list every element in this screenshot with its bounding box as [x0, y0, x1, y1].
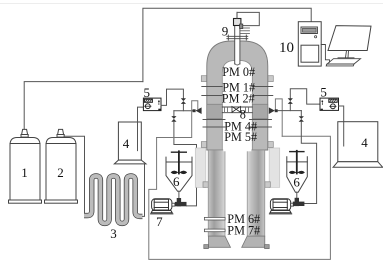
wire: valve 2R to pump tee right	[301, 122, 316, 204]
vessel 4 left (bubbler)	[114, 122, 146, 164]
wire: cylinder2 to heat exchanger inlet	[64, 136, 84, 215]
svg-text:3: 3	[110, 226, 117, 241]
valve 2 right (bowtie)	[299, 116, 304, 122]
heat exchanger 3 (serpentine cooler)	[84, 176, 143, 224]
wire: bridge over right port	[275, 99, 282, 136]
port boss right	[252, 104, 267, 118]
distributor plate 8	[222, 107, 252, 113]
valve 2 left (bowtie)	[171, 116, 176, 122]
furnace strip right	[269, 148, 280, 187]
top flange	[227, 35, 248, 40]
monitor stand	[338, 51, 354, 58]
svg-text:9: 9	[222, 24, 229, 39]
foot right	[242, 236, 265, 247]
elbow fitting right	[293, 198, 305, 206]
monitor	[328, 26, 371, 51]
svg-text:4: 4	[361, 135, 368, 150]
reactor neck tube	[235, 26, 240, 66]
wire: cylinder1 stem to junction	[24, 82, 143, 129]
port fitting cone left	[193, 107, 202, 114]
thermocouple ticks at neck	[240, 28, 250, 34]
svg-text:PM 5#: PM 5#	[224, 130, 257, 144]
svg-text:5: 5	[144, 85, 151, 100]
tower	[298, 22, 321, 66]
furnace strip left	[195, 148, 206, 187]
flange tab right upper	[268, 76, 274, 82]
vessel 4 right	[333, 122, 383, 168]
flow controller 5 right	[320, 98, 339, 110]
flange tab left lower	[203, 182, 209, 188]
faint scan border	[0, 3, 383, 5]
svg-text:PM 2#: PM 2#	[222, 92, 255, 106]
port fitting cone right	[269, 107, 278, 114]
wire: 5R to vessel 4R dip tube	[339, 106, 344, 146]
reactor column wall left	[208, 150, 225, 236]
pressure loop line (big U)	[149, 136, 331, 259]
PM6/PM7 port tubes through left wall	[204, 217, 225, 231]
svg-text:7: 7	[156, 214, 163, 229]
foot block left	[204, 245, 209, 249]
valve 1 right (bowtie)	[288, 98, 293, 104]
wire: exchanger outlet up to vessel 4 base	[143, 164, 145, 216]
wire: signal line to computer	[143, 8, 311, 81]
wire: valve 2R hang	[300, 111, 302, 117]
flange tab left upper	[201, 76, 207, 82]
foot left	[209, 236, 231, 247]
wire: valve 1R up line	[290, 89, 320, 104]
foot block right	[265, 245, 270, 249]
cavity continuity erase	[223, 149, 251, 152]
wire: dip tube from flow meter 5 into vessel 4	[138, 107, 143, 151]
wire: valve2 to pump tee	[174, 122, 197, 206]
elbow fitting left	[175, 198, 187, 206]
svg-text:PM 7#: PM 7#	[227, 224, 260, 238]
reactor column wall right	[247, 150, 265, 236]
instrument tap lines on bell	[202, 87, 273, 128]
pump 7 left	[151, 199, 175, 214]
reactor bell (dome)	[207, 41, 268, 150]
svg-text:4: 4	[123, 136, 130, 151]
vessel 6 left (stirred tank)	[166, 157, 192, 198]
svg-text:5: 5	[320, 85, 327, 100]
vessel 6 right (stirred tank)	[287, 157, 308, 198]
wire: valve 1R down to port line	[289, 104, 291, 111]
port boss left	[207, 104, 223, 118]
wire: valve V2 hang line	[173, 111, 175, 116]
keyboard	[326, 59, 360, 66]
svg-text:PM 0#: PM 0#	[222, 65, 255, 79]
cable tower to keyboard	[321, 45, 329, 63]
svg-text:10: 10	[279, 40, 294, 56]
svg-text:2: 2	[57, 165, 64, 180]
valve 1 left (bowtie)	[181, 98, 186, 104]
wire: valve V1 down to port line	[182, 104, 184, 111]
gas cylinder 2	[45, 129, 78, 203]
svg-text:6: 6	[293, 175, 300, 190]
wire: reactor port line (right)	[278, 110, 302, 112]
wire: reactor port line (left)	[174, 110, 193, 112]
wire: bridge over left port	[157, 101, 198, 138]
svg-text:1: 1	[21, 165, 28, 180]
wire: flow meter 5 to valve V1	[161, 89, 183, 105]
pressure fitting 9	[234, 12, 241, 25]
pump 7 right	[269, 199, 293, 214]
stirrer left	[171, 151, 187, 174]
plate center valve symbol	[232, 107, 240, 113]
wire: loop from fitting to neck side	[237, 12, 259, 25]
flange tab left mid	[201, 142, 207, 148]
stirrer right	[289, 151, 305, 174]
neck side nub	[240, 24, 243, 29]
svg-text:6: 6	[173, 174, 180, 189]
gas cylinder 1	[9, 129, 42, 203]
flow controller 5 left	[143, 98, 161, 111]
flange tab right lower	[265, 182, 271, 188]
PM labels	[222, 65, 260, 237]
flange tab right mid	[268, 142, 274, 148]
bell cavity	[222, 61, 252, 151]
